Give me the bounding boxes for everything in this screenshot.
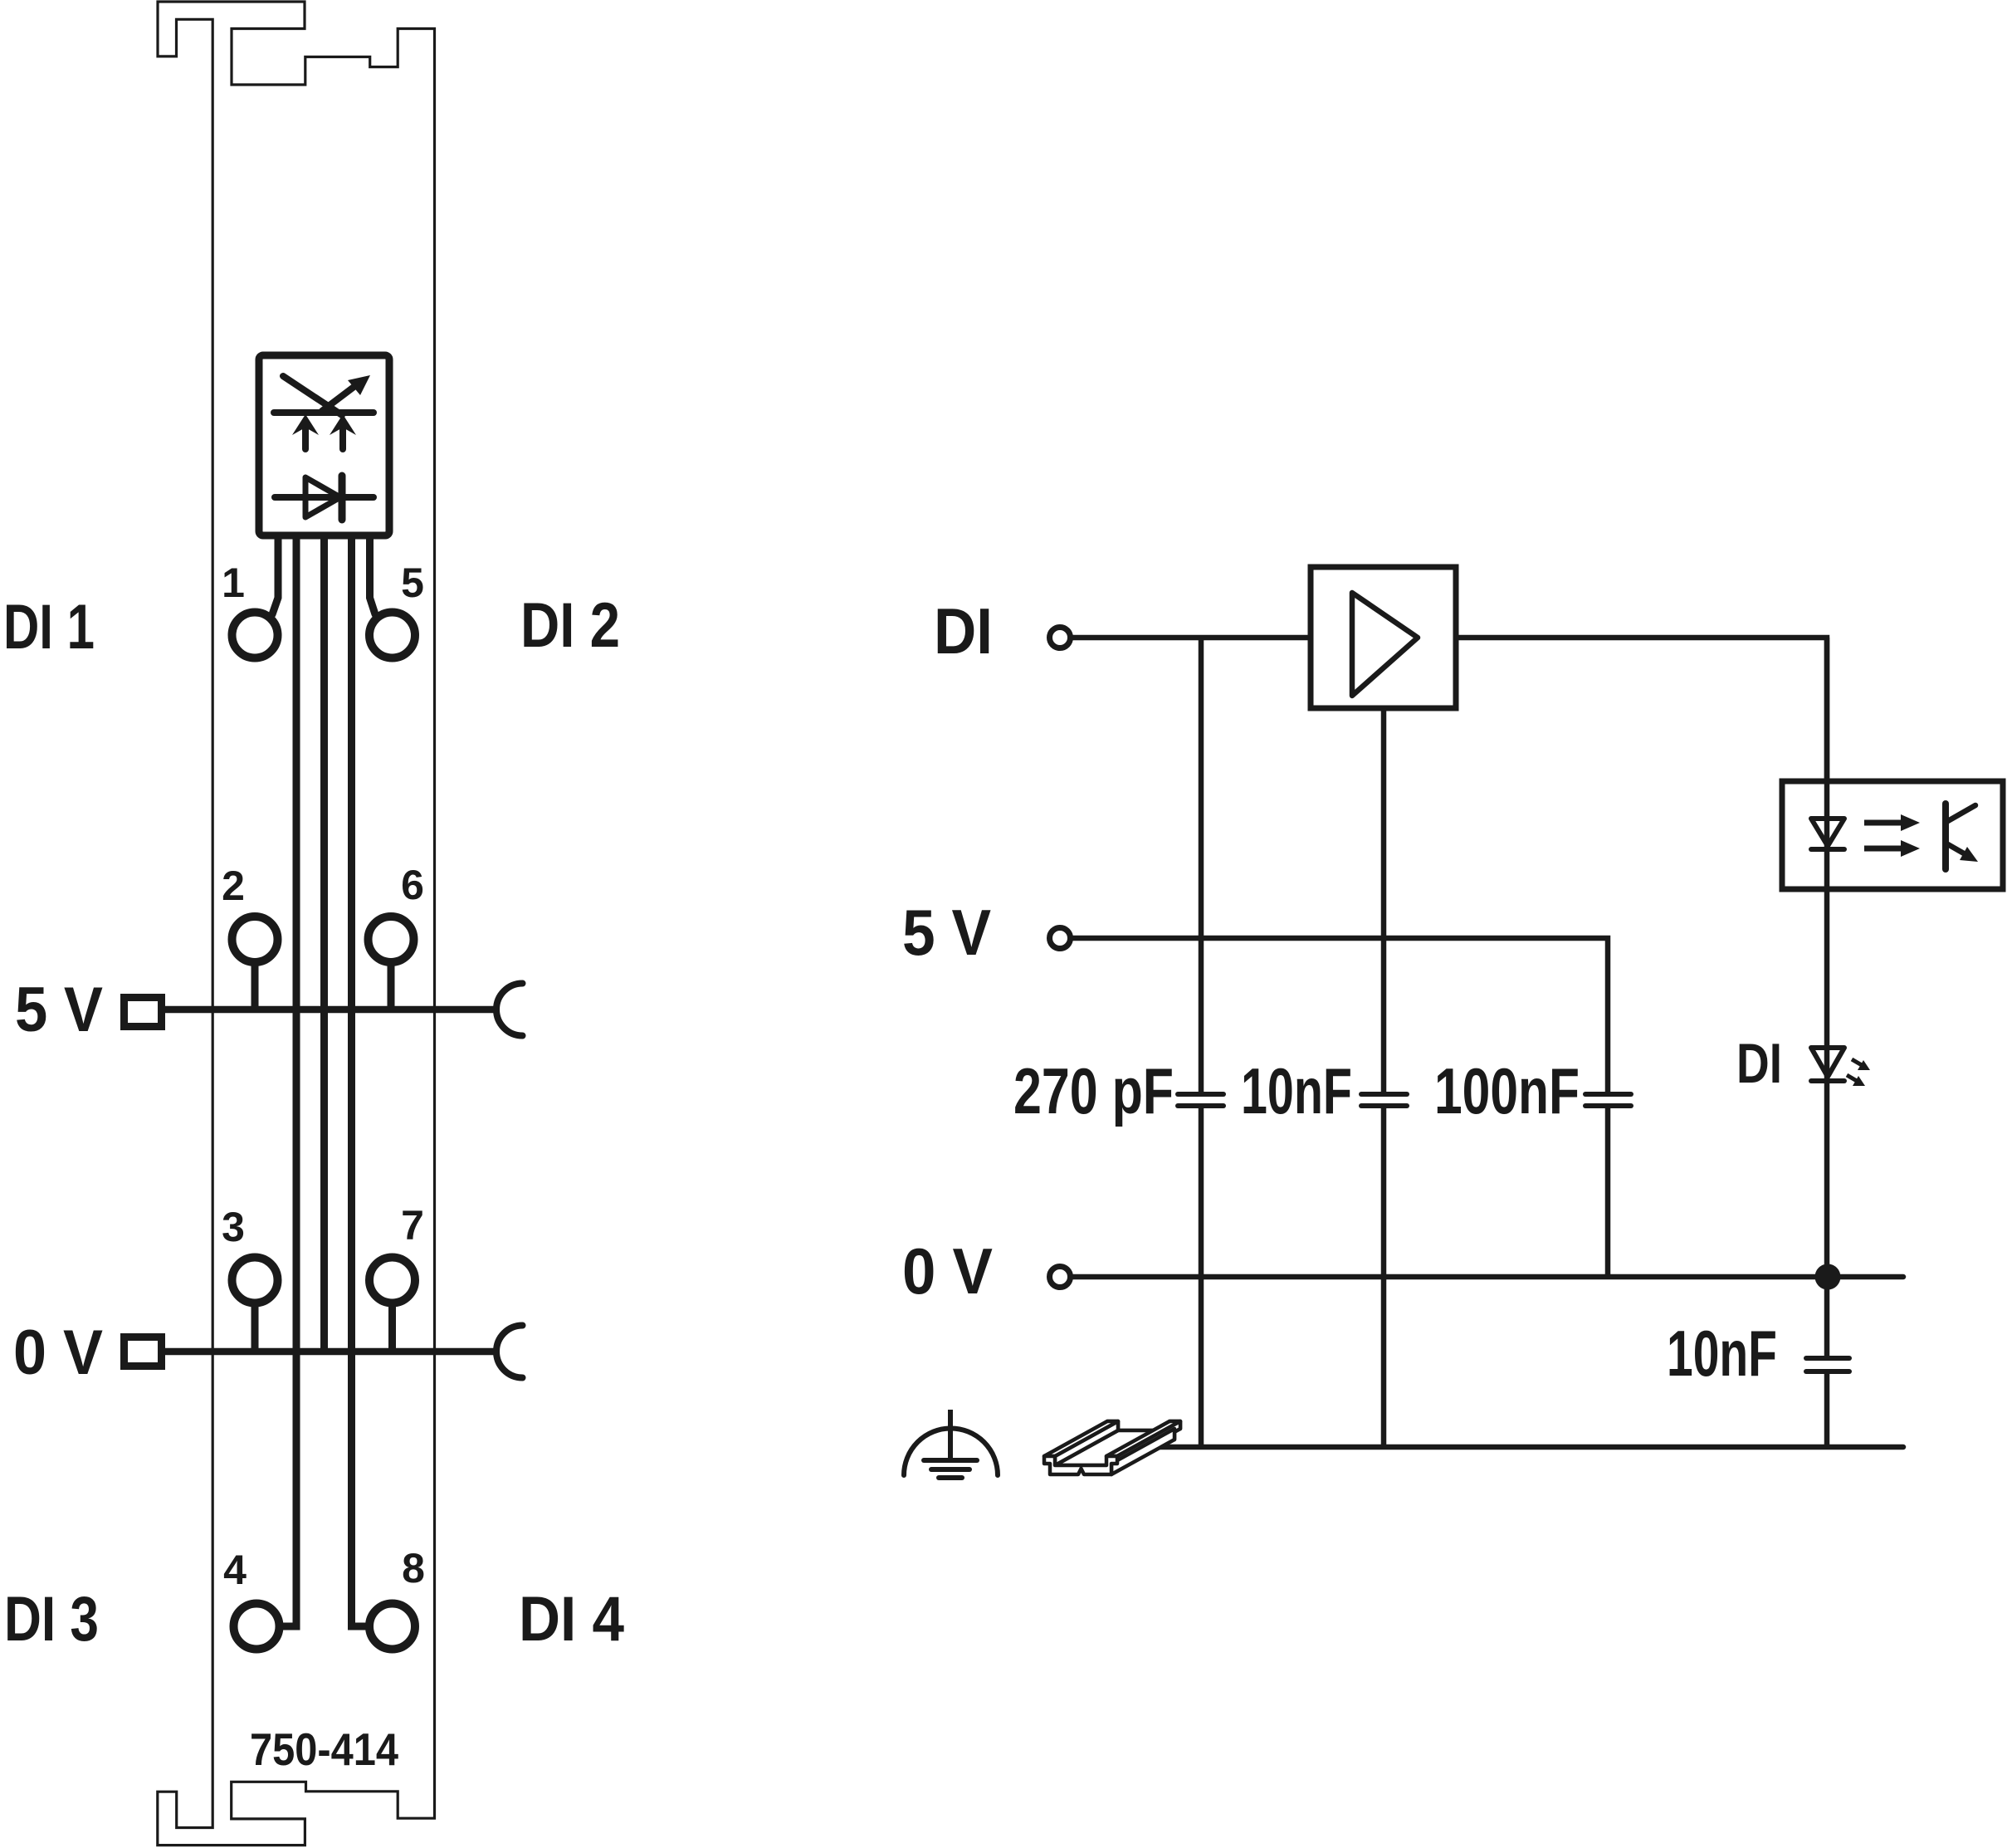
5V bus continuation arc <box>496 984 522 1036</box>
5V feed-through contact <box>125 998 162 1027</box>
optocoupler light arrow 2 <box>1864 846 1906 852</box>
functional earth symbol <box>904 1429 998 1476</box>
0V bus wire <box>165 1348 496 1356</box>
svg-text:0 V: 0 V <box>902 1234 993 1308</box>
svg-text:0 V: 0 V <box>13 1318 103 1388</box>
wire amplifier output <box>1456 638 1827 781</box>
wire DI node down to 270pF <box>1199 638 1204 1094</box>
wire pin1 from U1 to terminal 1 <box>272 535 278 614</box>
terminal 2 <box>232 917 278 962</box>
wire 0V line <box>1072 1274 1903 1280</box>
5V bus wire <box>165 1006 496 1014</box>
surge suppressor symbol: up arrow 2 <box>339 427 346 449</box>
surge suppressor symbol: diagonal arrow <box>322 385 356 411</box>
svg-text:3: 3 <box>222 1204 245 1250</box>
wire DI input to amplifier <box>1072 635 1311 641</box>
svg-text:DI: DI <box>1736 1032 1782 1095</box>
amplifier U2 box <box>1311 567 1456 708</box>
suppressor diode D1 <box>275 494 374 501</box>
LED DI indicator <box>1811 1048 1844 1077</box>
terminal 5 <box>369 613 415 658</box>
wire terminal 6 to 5V bus <box>388 966 395 1010</box>
svg-text:10nF: 10nF <box>1241 1054 1352 1127</box>
LED DI light arrow 1 <box>1852 1059 1862 1065</box>
svg-text:270 pF: 270 pF <box>1013 1054 1174 1127</box>
surge suppressor symbol: bar <box>274 409 374 416</box>
junction dot 0V <box>1815 1264 1841 1290</box>
svg-text:5 V: 5 V <box>902 896 991 969</box>
surge suppressor U1 box <box>259 355 389 535</box>
wire terminal 7 to 0V bus <box>388 1306 396 1352</box>
optocoupler phototransistor Q1 <box>1942 804 1949 869</box>
wire from U1 to terminal 8 <box>352 535 366 1626</box>
svg-text:100nF: 100nF <box>1434 1054 1580 1127</box>
svg-text:DI: DI <box>934 594 993 667</box>
capacitor 100nF <box>1585 1092 1631 1097</box>
wire 10nF to earth bus <box>1824 1371 1830 1447</box>
svg-text:5: 5 <box>401 560 424 606</box>
amplifier triangle <box>1352 593 1418 696</box>
wire terminal 2 to 5V bus <box>251 966 259 1010</box>
svg-text:5 V: 5 V <box>15 975 103 1045</box>
DIN carrier rail symbol <box>1044 1421 1180 1474</box>
terminal 3 <box>232 1258 278 1303</box>
wire pin5 from U1 to terminal 5 <box>370 535 376 614</box>
svg-text:7: 7 <box>401 1202 424 1249</box>
wire from U1 to 0V bus <box>320 535 328 1352</box>
node 5V input circle <box>1050 928 1071 949</box>
surge suppressor symbol: up arrow 1 <box>302 427 309 449</box>
svg-text:DI 1: DI 1 <box>3 592 95 662</box>
svg-text:8: 8 <box>402 1545 425 1591</box>
svg-text:DI 2: DI 2 <box>520 590 620 661</box>
terminal 4 <box>234 1604 280 1650</box>
svg-text:10nF: 10nF <box>1667 1317 1777 1390</box>
module 750-414 outline <box>158 2 435 1846</box>
terminal 8 <box>369 1604 415 1650</box>
wire from U1 to terminal 4 <box>283 535 296 1626</box>
optocoupler U3 box <box>1782 781 2003 889</box>
earth bus wire <box>1129 1445 1903 1450</box>
svg-text:6: 6 <box>401 862 424 908</box>
wire 100nF to 0V line <box>1605 1106 1611 1277</box>
wire 270pF to earth bus <box>1199 1106 1204 1447</box>
svg-text:1: 1 <box>222 560 245 606</box>
capacitor 10nF to earth <box>1806 1356 1849 1361</box>
capacitor 10nF <box>1361 1092 1407 1097</box>
wire amplifier bottom to 10nF <box>1381 708 1387 1094</box>
terminal 1 <box>232 613 278 658</box>
wire 5V line <box>1072 938 1608 1094</box>
svg-text:DI 3: DI 3 <box>4 1584 99 1655</box>
optocoupler light arrow 1 <box>1864 820 1906 826</box>
wire terminal 3 to 0V bus <box>251 1306 259 1352</box>
terminal 6 <box>369 917 414 962</box>
wire through optocoupler down to 0V junction <box>1824 638 1830 1277</box>
wire 10nF to earth bus <box>1381 1106 1387 1447</box>
surge suppressor symbol: diagonal line <box>283 376 342 415</box>
node 0V input circle <box>1050 1267 1071 1288</box>
svg-text:DI 4: DI 4 <box>519 1584 624 1655</box>
terminal 7 <box>369 1258 415 1303</box>
svg-text:2: 2 <box>222 863 245 909</box>
svg-text:4: 4 <box>223 1547 247 1593</box>
0V feed-through contact <box>125 1337 162 1366</box>
optocoupler LED <box>1811 819 1844 846</box>
capacitor 270pF <box>1178 1092 1223 1097</box>
LED DI light arrow 2 <box>1847 1075 1857 1081</box>
node DI input circle <box>1050 628 1071 648</box>
0V bus continuation arc <box>496 1326 522 1378</box>
wire junction to 10nF <box>1824 1277 1830 1358</box>
svg-text:750-414: 750-414 <box>250 1723 398 1775</box>
